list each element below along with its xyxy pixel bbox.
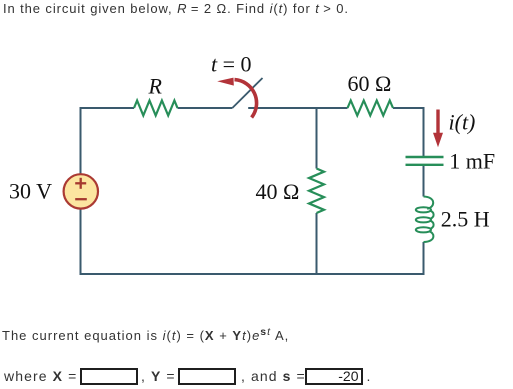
svg-text:1 mF: 1 mF [449,148,495,173]
svg-text:R: R [148,74,163,99]
svg-text:2.5 H: 2.5 H [441,207,490,232]
svg-text:30 V: 30 V [9,178,52,203]
svg-text:t = 0: t = 0 [211,52,252,77]
svg-text:60 Ω: 60 Ω [348,71,392,96]
svg-text:40 Ω: 40 Ω [256,179,300,204]
svg-text:i(t): i(t) [449,110,476,135]
